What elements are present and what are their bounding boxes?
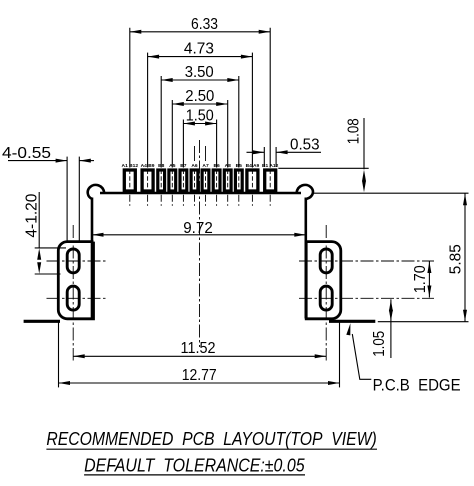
svg-text:5.85: 5.85 — [448, 244, 465, 274]
svg-text:B4 A9: B4 A9 — [246, 163, 260, 169]
pad B1/A12 — [262, 163, 279, 207]
svg-text:4.73: 4.73 — [184, 41, 214, 58]
svg-text:4-0.55: 4-0.55 — [2, 145, 51, 162]
dimension 2.50 (pad pair spacing) — [172, 88, 227, 168]
svg-text:1.70: 1.70 — [412, 265, 429, 293]
svg-text:11.52: 11.52 — [181, 340, 216, 357]
svg-text:4-1.20: 4-1.20 — [23, 194, 40, 238]
dimension 5.85 (shell to PCB edge) — [448, 193, 467, 322]
left slot vertical centerline — [72, 225, 74, 361]
vertical center axis — [199, 140, 201, 347]
dimension 1.05 (slot to PCB edge) — [371, 299, 393, 358]
left slot horizontal centerlines — [47, 261, 108, 298]
svg-text:RECOMMENDED PCB LAYOUT(TOP: RECOMMENDED PCB LAYOUT(TOP VIEW) — [46, 428, 376, 449]
svg-text:A7: A7 — [202, 163, 209, 169]
right slot vertical centerline — [325, 225, 327, 361]
dimension 3.50 (pad pair spacing) — [161, 64, 239, 168]
pad B4/A9 — [246, 163, 260, 207]
connector shell top edge — [100, 192, 301, 195]
right slot horizontal centerlines — [299, 261, 434, 298]
svg-text:B5: B5 — [236, 163, 243, 169]
right bracket slot upper (0.55 x 1.20) — [320, 249, 332, 273]
left bracket slot lower — [67, 286, 79, 310]
pad B6 — [213, 163, 220, 207]
note: recommended pcb layout — [46, 428, 377, 449]
PCB edge extension line (for 5.85/1.05) — [378, 321, 469, 323]
dimension 12.77 (bracket outer span) — [59, 321, 340, 388]
svg-text:3.50: 3.50 — [185, 64, 214, 81]
svg-text:A6: A6 — [191, 163, 198, 169]
svg-text:0.53: 0.53 — [290, 136, 320, 153]
svg-text:B7: B7 — [180, 163, 187, 169]
note: default tolerance — [84, 455, 305, 476]
centerline stubs innermost pads — [195, 146, 206, 161]
svg-text:A5: A5 — [169, 163, 176, 169]
dimension 11.52 (slot centers span) — [73, 340, 326, 358]
dimension 4-0.55 (slot width) — [2, 145, 94, 241]
pad A5 — [169, 163, 176, 207]
svg-text:A4 B9: A4 B9 — [141, 163, 155, 169]
PCB edge left segment — [24, 320, 60, 323]
left bracket slot upper (0.55 x 1.20) — [67, 249, 79, 273]
pad A4/B9 — [141, 163, 155, 207]
dimension 1.50 (pad pair spacing) — [183, 108, 216, 168]
shell rolled edge right curl — [297, 185, 313, 199]
shell top extension line (right, for 5.85) — [314, 192, 469, 194]
left mounting bracket — [58, 242, 93, 319]
svg-text:6.33: 6.33 — [191, 16, 218, 33]
pad A7 — [202, 163, 209, 207]
dimension 6.33 (pad pair spacing) — [130, 16, 270, 168]
dimension 1.70 (slot spacing) — [412, 261, 431, 298]
svg-text:B6: B6 — [213, 163, 220, 169]
dimension 0.53 (pad width) — [247, 136, 322, 166]
pad B8 — [158, 163, 165, 207]
svg-text:12.77: 12.77 — [182, 367, 217, 384]
svg-text:1.08: 1.08 — [346, 118, 363, 144]
dimension 4.73 (pad pair spacing) — [148, 41, 253, 168]
right mounting bracket — [306, 242, 341, 319]
PCB edge right segment — [329, 320, 375, 323]
svg-text:A1 B12: A1 B12 — [122, 163, 139, 169]
svg-text:9.72: 9.72 — [183, 220, 213, 237]
pad A6 — [191, 163, 198, 207]
svg-text:1.50: 1.50 — [186, 108, 214, 125]
pad A1/B12 — [122, 163, 139, 207]
shell left edge — [91, 198, 94, 319]
pad B7 — [180, 163, 187, 207]
svg-text:1.05: 1.05 — [371, 331, 388, 357]
pad B5 — [235, 163, 242, 207]
shell right edge — [304, 198, 307, 319]
svg-text:B1 A12: B1 A12 — [262, 163, 279, 169]
dimension 4-1.20 (slot length) — [23, 192, 66, 274]
dimension 1.08 (pad height) — [278, 118, 368, 192]
right bracket slot lower — [320, 286, 332, 310]
shell rolled edge left curl — [88, 185, 105, 199]
pad A8 — [224, 163, 231, 207]
svg-text:2.50: 2.50 — [185, 88, 214, 105]
svg-text:B8: B8 — [158, 163, 165, 169]
P.C.B EDGE leader and label — [346, 323, 460, 394]
svg-text:P.C.B EDGE: P.C.B EDGE — [373, 375, 461, 394]
dimension 9.72 (shell width) — [92, 220, 306, 237]
svg-text:A8: A8 — [225, 163, 232, 169]
svg-text:DEFAULT TOLERANCE:±0.05: DEFAULT TOLERANCE:±0.05 — [84, 455, 305, 476]
